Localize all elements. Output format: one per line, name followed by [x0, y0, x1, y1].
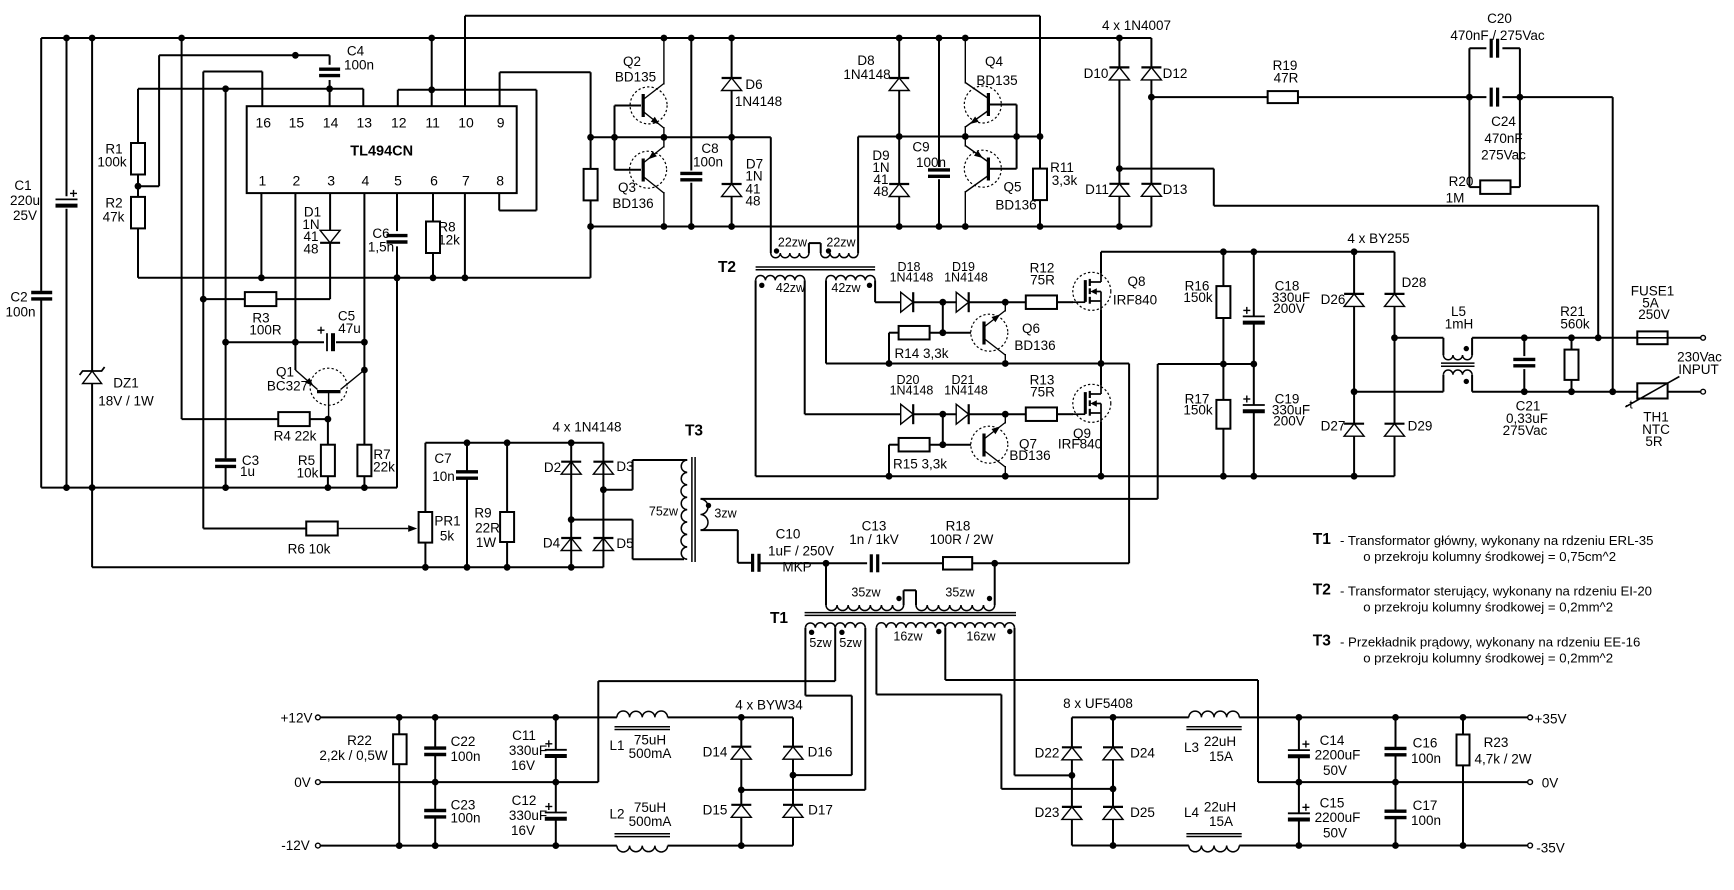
svg-text:10n: 10n [432, 469, 455, 484]
svg-text:0V: 0V [294, 775, 311, 790]
svg-text:8: 8 [496, 173, 504, 189]
svg-text:4 x BY255: 4 x BY255 [1347, 231, 1409, 246]
svg-text:MKP: MKP [782, 560, 811, 575]
svg-text:150k: 150k [1183, 403, 1213, 418]
svg-text:22zw: 22zw [778, 236, 808, 250]
svg-text:T1: T1 [1313, 531, 1331, 548]
svg-text:R22: R22 [347, 733, 372, 748]
svg-text:50V: 50V [1323, 826, 1347, 841]
svg-text:PR1: PR1 [434, 514, 460, 529]
svg-text:11: 11 [425, 115, 440, 131]
svg-text:IRF840: IRF840 [1058, 437, 1102, 452]
svg-text:D14: D14 [703, 745, 728, 760]
svg-text:48: 48 [745, 194, 760, 209]
svg-text:48: 48 [303, 242, 318, 257]
svg-text:470nF / 275Vac: 470nF / 275Vac [1450, 28, 1545, 43]
svg-text:12: 12 [391, 115, 407, 131]
svg-text:200V: 200V [1273, 301, 1305, 316]
svg-text:C12: C12 [512, 793, 537, 808]
svg-text:5: 5 [394, 173, 402, 189]
svg-text:2200uF: 2200uF [1315, 748, 1361, 763]
svg-text:R9: R9 [474, 506, 491, 521]
svg-text:Q8: Q8 [1127, 274, 1145, 289]
svg-text:BD135: BD135 [615, 70, 656, 85]
svg-text:100n: 100n [450, 749, 480, 764]
svg-text:R4 22k: R4 22k [274, 429, 317, 444]
svg-text:C20: C20 [1487, 11, 1512, 26]
svg-text:Q3: Q3 [618, 180, 636, 195]
svg-text:1,5n: 1,5n [368, 240, 394, 255]
svg-text:8 x UF5408: 8 x UF5408 [1063, 696, 1133, 711]
svg-text:- Transformator główny, wykona: - Transformator główny, wykonany na rdze… [1340, 533, 1653, 548]
svg-text:3zw: 3zw [714, 507, 737, 521]
svg-text:15: 15 [289, 115, 305, 131]
svg-text:16zw: 16zw [893, 630, 923, 644]
svg-text:-12V: -12V [281, 838, 310, 853]
svg-text:100n: 100n [450, 811, 480, 826]
svg-text:D13: D13 [1163, 182, 1188, 197]
svg-text:470nF: 470nF [1484, 131, 1522, 146]
svg-text:C15: C15 [1320, 796, 1345, 811]
svg-text:C10: C10 [776, 527, 801, 542]
svg-text:16zw: 16zw [966, 630, 996, 644]
svg-text:1N4148: 1N4148 [843, 67, 890, 82]
svg-text:C24: C24 [1491, 114, 1516, 129]
svg-text:1N4148: 1N4148 [890, 384, 934, 398]
svg-text:1mH: 1mH [1445, 317, 1474, 332]
svg-text:1u: 1u [240, 464, 255, 479]
svg-text:o przekroju kolumny środkowej: o przekroju kolumny środkowej = 0,75cm^2 [1363, 549, 1616, 564]
svg-text:22k: 22k [373, 460, 395, 475]
svg-text:16: 16 [256, 115, 272, 131]
svg-text:100n: 100n [5, 305, 35, 320]
svg-text:0V: 0V [1542, 776, 1559, 791]
svg-text:15A: 15A [1209, 814, 1233, 829]
svg-text:R15 3,3k: R15 3,3k [893, 457, 947, 472]
svg-text:R14 3,3k: R14 3,3k [894, 346, 948, 361]
svg-text:250V: 250V [1638, 307, 1670, 322]
svg-text:D5: D5 [616, 536, 633, 551]
svg-text:D16: D16 [808, 745, 833, 760]
svg-text:D11: D11 [1085, 182, 1109, 197]
svg-text:C17: C17 [1413, 798, 1438, 813]
svg-text:R6 10k: R6 10k [288, 542, 331, 557]
svg-text:3: 3 [327, 173, 335, 189]
svg-text:10: 10 [458, 115, 474, 131]
svg-text:100n: 100n [1411, 751, 1441, 766]
svg-text:L2: L2 [609, 807, 624, 822]
svg-text:22zw: 22zw [826, 236, 856, 250]
svg-text:42zw: 42zw [831, 281, 861, 295]
svg-text:200V: 200V [1273, 414, 1305, 429]
svg-text:D24: D24 [1130, 746, 1155, 761]
svg-text:D29: D29 [1408, 419, 1433, 434]
svg-text:330uF: 330uF [509, 808, 547, 823]
svg-text:22uH: 22uH [1204, 800, 1236, 815]
svg-text:D3: D3 [616, 459, 633, 474]
svg-text:4 x BYW34: 4 x BYW34 [735, 698, 803, 713]
svg-text:7: 7 [462, 173, 470, 189]
svg-text:T3: T3 [685, 423, 703, 440]
svg-text:DZ1: DZ1 [113, 376, 139, 391]
svg-text:C4: C4 [347, 44, 365, 59]
svg-text:C22: C22 [451, 734, 476, 749]
svg-text:T3: T3 [1313, 633, 1331, 650]
svg-text:R23: R23 [1484, 735, 1509, 750]
svg-text:75zw: 75zw [649, 505, 679, 519]
svg-text:5k: 5k [440, 529, 455, 544]
svg-text:D6: D6 [745, 77, 762, 92]
svg-text:BD136: BD136 [612, 196, 653, 211]
svg-text:D8: D8 [857, 53, 874, 68]
svg-text:500mA: 500mA [629, 746, 672, 761]
svg-text:2,2k / 0,5W: 2,2k / 0,5W [319, 748, 388, 763]
svg-text:14: 14 [323, 115, 339, 131]
svg-text:D28: D28 [1402, 275, 1427, 290]
svg-text:TL494CN: TL494CN [350, 143, 413, 159]
svg-text:5zw: 5zw [839, 636, 862, 650]
svg-text:10k: 10k [297, 466, 319, 481]
svg-text:2200uF: 2200uF [1315, 810, 1361, 825]
svg-text:C7: C7 [434, 451, 451, 466]
svg-text:15A: 15A [1209, 749, 1233, 764]
svg-text:100R / 2W: 100R / 2W [930, 532, 994, 547]
svg-text:T2: T2 [1313, 582, 1331, 599]
svg-text:D15: D15 [703, 803, 728, 818]
svg-text:560k: 560k [1560, 317, 1590, 332]
svg-text:D4: D4 [543, 536, 561, 551]
svg-text:o przekroju kolumny środkowej: o przekroju kolumny środkowej = 0,2mm^2 [1363, 651, 1613, 666]
svg-text:220u: 220u [10, 193, 40, 208]
svg-text:275Vac: 275Vac [1503, 423, 1548, 438]
svg-text:T1: T1 [770, 610, 788, 627]
svg-text:IRF840: IRF840 [1113, 293, 1157, 308]
svg-text:275Vac: 275Vac [1481, 148, 1526, 163]
svg-text:50V: 50V [1323, 763, 1347, 778]
svg-text:R2: R2 [105, 196, 122, 211]
svg-text:1N4148: 1N4148 [944, 271, 988, 285]
svg-text:35zw: 35zw [851, 586, 881, 600]
svg-text:C16: C16 [1413, 736, 1438, 751]
svg-text:22uH: 22uH [1204, 734, 1236, 749]
svg-text:+12V: +12V [281, 711, 313, 726]
svg-text:C11: C11 [512, 728, 536, 743]
svg-text:D10: D10 [1084, 66, 1109, 81]
svg-text:Q1: Q1 [276, 365, 294, 380]
svg-text:C9: C9 [912, 140, 929, 155]
svg-text:L1: L1 [609, 738, 624, 753]
svg-text:47u: 47u [338, 321, 361, 336]
svg-text:22R: 22R [475, 521, 500, 536]
svg-text:- Transformator sterujący, wyk: - Transformator sterujący, wykonany na r… [1340, 584, 1652, 599]
svg-text:1: 1 [259, 173, 267, 189]
svg-text:L4: L4 [1184, 805, 1200, 820]
svg-text:C1: C1 [14, 178, 31, 193]
svg-text:BC327: BC327 [267, 379, 308, 394]
svg-text:D22: D22 [1035, 746, 1060, 761]
svg-text:T2: T2 [718, 259, 736, 276]
svg-text:35zw: 35zw [945, 586, 975, 600]
svg-text:D23: D23 [1035, 805, 1060, 820]
svg-text:BD136: BD136 [1014, 338, 1055, 353]
svg-text:INPUT: INPUT [1678, 362, 1719, 377]
svg-text:L3: L3 [1184, 740, 1199, 755]
svg-text:BD136: BD136 [995, 198, 1036, 213]
svg-text:1M: 1M [1446, 191, 1465, 206]
svg-text:BD136: BD136 [1009, 448, 1050, 463]
svg-text:D26: D26 [1321, 292, 1346, 307]
svg-text:Q2: Q2 [623, 54, 641, 69]
svg-text:100R: 100R [249, 323, 282, 338]
svg-text:4: 4 [362, 173, 370, 189]
svg-text:100n: 100n [916, 155, 946, 170]
svg-text:1uF / 250V: 1uF / 250V [768, 544, 834, 559]
svg-text:5R: 5R [1645, 434, 1663, 449]
svg-text:-t: -t [1625, 398, 1633, 412]
svg-text:16V: 16V [511, 823, 535, 838]
svg-text:R20: R20 [1449, 174, 1474, 189]
svg-text:150k: 150k [1183, 290, 1213, 305]
svg-text:4 x 1N4148: 4 x 1N4148 [552, 420, 621, 435]
svg-text:500mA: 500mA [629, 814, 672, 829]
svg-text:75R: 75R [1030, 273, 1055, 288]
svg-text:100k: 100k [97, 155, 127, 170]
svg-text:D25: D25 [1130, 805, 1155, 820]
svg-text:100n: 100n [693, 155, 723, 170]
svg-text:D12: D12 [1163, 66, 1188, 81]
svg-text:25V: 25V [13, 208, 37, 223]
svg-text:18V / 1W: 18V / 1W [98, 394, 154, 409]
svg-text:1n / 1kV: 1n / 1kV [849, 532, 899, 547]
svg-text:3,3k: 3,3k [1052, 173, 1078, 188]
svg-text:BD135: BD135 [976, 73, 1017, 88]
svg-text:100n: 100n [344, 58, 374, 73]
svg-text:47R: 47R [1274, 71, 1299, 86]
svg-text:1W: 1W [476, 535, 497, 550]
svg-text:5zw: 5zw [809, 636, 832, 650]
svg-text:C2: C2 [10, 290, 27, 305]
svg-text:6: 6 [430, 173, 438, 189]
svg-text:D27: D27 [1321, 419, 1346, 434]
svg-text:Q6: Q6 [1022, 321, 1040, 336]
svg-text:75uH: 75uH [634, 800, 666, 815]
svg-text:o przekroju kolumny środkowej: o przekroju kolumny środkowej = 0,2mm^2 [1363, 600, 1613, 615]
svg-text:4,7k / 2W: 4,7k / 2W [1474, 752, 1531, 767]
svg-text:48: 48 [873, 184, 888, 199]
svg-text:100n: 100n [1411, 813, 1441, 828]
svg-text:9: 9 [497, 115, 505, 131]
svg-text:42zw: 42zw [776, 281, 806, 295]
svg-text:2: 2 [293, 173, 301, 189]
svg-text:13: 13 [357, 115, 373, 131]
svg-text:+35V: +35V [1535, 712, 1567, 727]
svg-text:47k: 47k [103, 210, 125, 225]
svg-text:12k: 12k [438, 233, 460, 248]
svg-text:1N4148: 1N4148 [735, 94, 782, 109]
svg-text:-35V: -35V [1536, 841, 1565, 856]
svg-text:- Przekładnik prądowy, wykonan: - Przekładnik prądowy, wykonany na rdzen… [1340, 635, 1640, 650]
svg-text:C14: C14 [1320, 733, 1345, 748]
svg-text:4 x 1N4007: 4 x 1N4007 [1102, 18, 1171, 33]
svg-text:D17: D17 [808, 803, 833, 818]
svg-text:Q5: Q5 [1003, 180, 1021, 195]
svg-text:16V: 16V [511, 758, 535, 773]
svg-text:Q4: Q4 [985, 54, 1004, 69]
svg-text:1N4148: 1N4148 [944, 384, 988, 398]
svg-text:75R: 75R [1030, 385, 1055, 400]
svg-text:330uF: 330uF [509, 743, 547, 758]
svg-text:D2: D2 [544, 460, 561, 475]
svg-text:1N4148: 1N4148 [890, 271, 934, 285]
